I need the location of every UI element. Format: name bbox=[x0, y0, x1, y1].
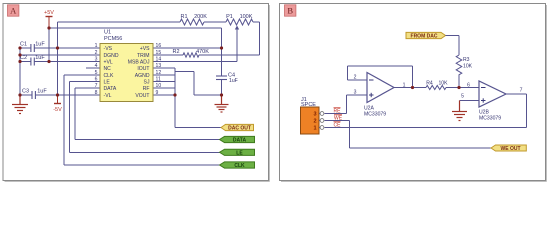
svg-text:RF: RF bbox=[143, 86, 150, 92]
svg-text:+VS: +VS bbox=[140, 46, 150, 52]
potentiometer P1 bbox=[226, 14, 253, 29]
svg-text:FROM DAC: FROM DAC bbox=[411, 34, 438, 40]
svg-text:10K: 10K bbox=[463, 64, 473, 70]
ground (left rail) bbox=[12, 95, 28, 114]
wire R1 to P1 bbox=[204, 21, 226, 23]
svg-text:10K: 10K bbox=[438, 81, 448, 87]
ground (under C4) bbox=[215, 95, 229, 112]
port DATA bbox=[220, 136, 255, 143]
ground (U2B pin5) bbox=[452, 101, 467, 121]
wire pin6 LE bbox=[70, 81, 101, 83]
svg-text:16: 16 bbox=[156, 43, 162, 49]
svg-text:R3: R3 bbox=[463, 57, 470, 63]
IC U1 PCM56 bbox=[100, 30, 153, 102]
svg-text:+5V: +5V bbox=[44, 10, 54, 16]
svg-text:CE: CE bbox=[334, 123, 342, 129]
junction dots panel A bbox=[18, 26, 223, 96]
svg-text:1uF: 1uF bbox=[229, 78, 238, 84]
wire pin3 +VL row bbox=[20, 61, 31, 63]
power -5V bbox=[53, 95, 62, 113]
svg-text:15: 15 bbox=[156, 50, 162, 56]
wire -5V riser x=57.5 bbox=[57, 22, 59, 95]
wire U2A pin3 bbox=[347, 94, 368, 96]
svg-text:DATA: DATA bbox=[233, 138, 247, 144]
port DAC OUT bbox=[221, 124, 254, 131]
port CLK bbox=[220, 162, 255, 169]
svg-text:P1: P1 bbox=[226, 14, 233, 20]
port FROM DAC bbox=[406, 32, 446, 39]
svg-text:VOUT: VOUT bbox=[135, 93, 149, 99]
op-amp U2B bbox=[461, 81, 523, 122]
net label CE bbox=[334, 122, 342, 129]
wire pin7 DATA bbox=[75, 87, 100, 89]
svg-text:1: 1 bbox=[403, 83, 406, 89]
svg-text:9: 9 bbox=[156, 90, 159, 96]
wire R3 bottom to node bbox=[458, 75, 460, 88]
svg-text:-VS: -VS bbox=[104, 46, 113, 52]
net label RE bbox=[334, 108, 342, 115]
svg-text:+VL: +VL bbox=[104, 60, 113, 66]
svg-text:11: 11 bbox=[156, 77, 161, 83]
svg-text:6: 6 bbox=[467, 83, 470, 89]
svg-text:100K: 100K bbox=[240, 14, 253, 20]
wire CE row bbox=[325, 127, 527, 129]
wire R4 to U2B pin6 bbox=[446, 87, 479, 89]
resistor R2 bbox=[172, 49, 209, 57]
U1 right pin numbers bbox=[156, 43, 162, 96]
svg-text:LE: LE bbox=[236, 150, 243, 156]
port WE OUT bbox=[491, 145, 526, 152]
svg-text:IOUT: IOUT bbox=[137, 66, 149, 72]
svg-text:R2: R2 bbox=[172, 49, 179, 55]
wire pin4 NC stub bbox=[86, 67, 100, 69]
U1 left pin names bbox=[104, 46, 119, 99]
port LE bbox=[220, 149, 255, 156]
net label WE bbox=[334, 115, 343, 122]
wire pin14 MSB ADJ to P1 wiper bbox=[153, 61, 237, 63]
svg-text:5: 5 bbox=[95, 70, 98, 76]
power +5V bbox=[44, 10, 54, 28]
svg-text:MC33079: MC33079 bbox=[479, 116, 501, 122]
panel A frame bbox=[3, 4, 270, 182]
svg-text:R1: R1 bbox=[180, 14, 187, 20]
wire pin10 RF bbox=[153, 87, 175, 89]
wire U2B pin5 bbox=[460, 100, 480, 102]
resistor R3 bbox=[456, 55, 472, 75]
svg-text:1uF: 1uF bbox=[35, 55, 45, 61]
resistor R1 bbox=[180, 14, 207, 25]
capacitor C2 bbox=[20, 55, 45, 66]
svg-text:5: 5 bbox=[461, 94, 464, 100]
svg-text:SPCE: SPCE bbox=[301, 102, 316, 108]
wire staircase to ground node bbox=[175, 71, 194, 73]
wire RE row bbox=[325, 113, 347, 115]
wire U2A pin2 bbox=[348, 79, 368, 81]
svg-text:3: 3 bbox=[313, 112, 316, 118]
svg-text:A: A bbox=[10, 6, 17, 16]
svg-text:LE: LE bbox=[104, 80, 111, 86]
svg-text:B: B bbox=[287, 6, 293, 16]
wire WE row bbox=[325, 120, 350, 122]
capacitor C1 bbox=[20, 42, 45, 53]
wire P1 right down to TRIM row bbox=[253, 21, 260, 23]
wire pin11 SJ bbox=[153, 81, 175, 83]
svg-text:1: 1 bbox=[95, 43, 98, 49]
svg-text:6: 6 bbox=[95, 77, 98, 83]
svg-text:1uF: 1uF bbox=[35, 42, 45, 48]
svg-text:WE: WE bbox=[334, 116, 343, 122]
wire +5V riser to +VL row bbox=[48, 28, 50, 62]
capacitor C4 bbox=[216, 73, 238, 85]
svg-text:14: 14 bbox=[156, 57, 162, 63]
svg-text:2: 2 bbox=[313, 119, 316, 125]
svg-text:U1: U1 bbox=[104, 30, 111, 36]
wire U2A output to R4 bbox=[394, 87, 426, 89]
panel label A bbox=[8, 5, 19, 16]
capacitor C3 bbox=[22, 89, 47, 100]
svg-text:DAC OUT: DAC OUT bbox=[228, 126, 251, 132]
svg-text:1: 1 bbox=[313, 126, 316, 132]
wire pin8 -VL row with C3 bbox=[20, 94, 32, 96]
svg-text:C3: C3 bbox=[22, 89, 29, 95]
svg-text:C1: C1 bbox=[20, 42, 27, 48]
wire rail y=22 to R1 bbox=[58, 21, 181, 23]
svg-text:CLK: CLK bbox=[104, 73, 115, 79]
svg-text:7: 7 bbox=[520, 88, 523, 94]
wire U2B output bbox=[506, 93, 527, 95]
wire left ground rail x=20 bbox=[19, 48, 21, 95]
wire DAC OUT drop bbox=[174, 95, 176, 128]
svg-text:4: 4 bbox=[95, 63, 98, 69]
svg-text:10: 10 bbox=[156, 83, 162, 89]
svg-text:AGND: AGND bbox=[135, 73, 150, 79]
svg-text:1uF: 1uF bbox=[37, 89, 47, 95]
svg-text:RE: RE bbox=[334, 109, 342, 115]
wire pin13 IOUT bbox=[153, 67, 175, 69]
svg-text:-5V: -5V bbox=[53, 107, 62, 113]
wire pin5 CLK bbox=[64, 74, 100, 76]
svg-text:MSB ADJ: MSB ADJ bbox=[128, 60, 150, 66]
wire rail y=28 to C4/+VS riser bbox=[49, 27, 222, 29]
wire pin15 TRIM row to R2 bbox=[153, 54, 183, 56]
wire FROM DAC to R3 bbox=[446, 35, 460, 37]
svg-text:3: 3 bbox=[95, 57, 98, 63]
junction dots panel B bbox=[411, 86, 461, 89]
svg-text:WE OUT: WE OUT bbox=[501, 146, 521, 152]
svg-text:2: 2 bbox=[95, 50, 98, 56]
connector J1 SPCE bbox=[301, 97, 324, 134]
svg-text:470K: 470K bbox=[196, 49, 209, 55]
resistor R4 bbox=[426, 81, 448, 90]
svg-text:SJ: SJ bbox=[144, 80, 150, 86]
svg-text:DGND: DGND bbox=[104, 53, 119, 59]
svg-text:CLK: CLK bbox=[234, 163, 245, 169]
wire pin2 DGND row bbox=[20, 54, 100, 56]
wire +VS / C4 riser bbox=[221, 28, 223, 76]
U1 left pin numbers bbox=[95, 43, 98, 96]
svg-text:12: 12 bbox=[156, 70, 162, 76]
svg-text:8: 8 bbox=[95, 90, 98, 96]
wire pin9 VOUT bbox=[153, 94, 175, 96]
wire feedback loop U2A bbox=[347, 66, 349, 80]
svg-text:NC: NC bbox=[104, 66, 112, 72]
wire pin16 +VS row bbox=[153, 47, 222, 49]
U1 right pin names bbox=[128, 46, 150, 99]
svg-text:PCM56: PCM56 bbox=[104, 36, 122, 42]
svg-text:200K: 200K bbox=[194, 14, 207, 20]
svg-text:R4: R4 bbox=[426, 81, 433, 87]
svg-text:-VL: -VL bbox=[104, 93, 112, 99]
svg-text:2: 2 bbox=[354, 75, 357, 81]
svg-text:3: 3 bbox=[354, 90, 357, 96]
panel B frame bbox=[280, 4, 547, 182]
wire riser x=175 bbox=[174, 68, 176, 95]
wire pin12 AGND bbox=[153, 74, 175, 76]
svg-text:MC33079: MC33079 bbox=[364, 112, 386, 118]
svg-text:13: 13 bbox=[156, 63, 162, 69]
svg-text:DATA: DATA bbox=[104, 86, 117, 92]
svg-text:7: 7 bbox=[95, 83, 98, 89]
panel label B bbox=[285, 5, 296, 16]
wire pin1 -VS row bbox=[20, 47, 31, 49]
op-amp U2A bbox=[354, 73, 406, 118]
svg-text:TRIM: TRIM bbox=[137, 53, 149, 59]
